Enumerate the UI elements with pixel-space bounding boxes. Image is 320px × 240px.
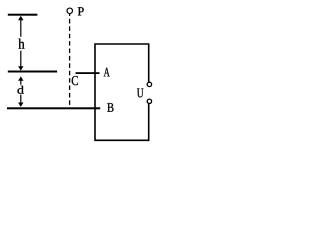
label U — [137, 88, 143, 97]
h dimension lower arrow — [18, 51, 23, 71]
lower terminal circle — [147, 99, 151, 103]
label B — [107, 103, 113, 112]
top level line — [8, 14, 38, 16]
upper terminal circle — [147, 82, 151, 86]
d dimension upper arrow — [18, 76, 23, 84]
plate A lead line — [76, 72, 100, 74]
label A — [104, 68, 110, 77]
label C — [72, 76, 78, 85]
middle level line (A level) — [8, 71, 57, 73]
device box outline — [95, 44, 149, 140]
label P — [78, 7, 84, 15]
label h — [18, 39, 24, 49]
h dimension upper arrow — [18, 16, 23, 37]
point P circle — [67, 8, 73, 14]
dashed drop line from P — [69, 12, 71, 108]
label d — [17, 86, 23, 94]
d dimension lower arrow — [18, 95, 23, 107]
ground level line (B level) — [7, 107, 100, 109]
